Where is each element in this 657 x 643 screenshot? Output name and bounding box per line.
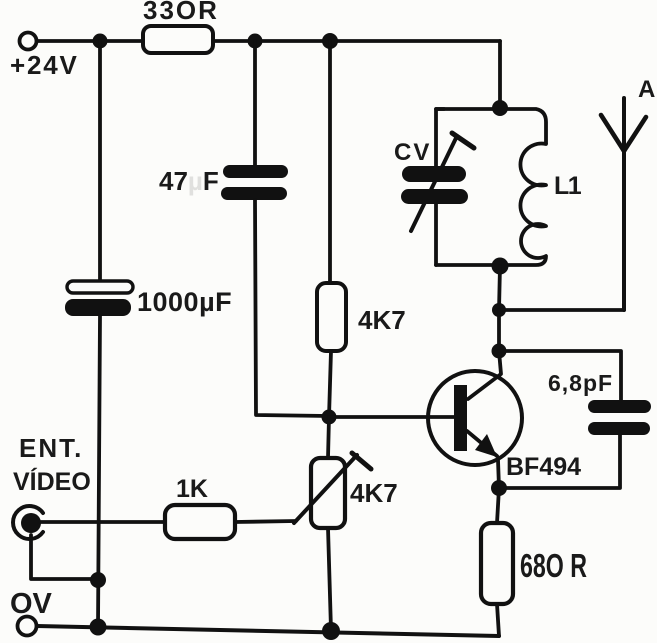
node base junction xyxy=(322,410,337,425)
wire base junction down to potentiometer xyxy=(328,417,329,458)
resistor 330R xyxy=(143,26,213,53)
wire top rail from +24V to right corner xyxy=(37,39,500,43)
wire 680R bottom to rail xyxy=(497,604,499,636)
wire video ground xyxy=(31,535,98,579)
svg-text:47µF: 47µF xyxy=(159,166,219,196)
wire 6.8pF top xyxy=(499,351,621,400)
capacitor C3 6.8pF plates xyxy=(588,400,651,435)
wire 47uF bottom down and right to base node xyxy=(255,200,329,416)
node bottom rail x=331 xyxy=(322,622,340,640)
svg-text:33OR: 33OR xyxy=(143,0,219,25)
capacitor CV variable plates xyxy=(401,166,468,204)
wire emitter node to 680R xyxy=(497,488,499,523)
inductor L1 xyxy=(436,143,546,265)
wire emitter down to emitter node xyxy=(498,460,499,488)
node tank top junction xyxy=(492,100,508,116)
wire CV arrow tip bar xyxy=(452,133,474,148)
wire collector node down into transistor xyxy=(468,351,501,399)
resistor R3 680R xyxy=(481,523,513,604)
svg-text:6,8pF: 6,8pF xyxy=(548,370,613,396)
svg-text:1K: 1K xyxy=(176,475,208,503)
tank circuit left branch wire xyxy=(436,109,444,265)
wire branch x=100 down to 1000uF xyxy=(98,41,102,281)
capacitor C1 47uF xyxy=(221,165,288,200)
svg-text:OV: OV xyxy=(10,588,53,620)
wire tank bottom to antenna node xyxy=(499,266,500,310)
svg-text:A: A xyxy=(638,76,655,103)
transistor base bar xyxy=(454,385,467,451)
node bottom rail x=98 xyxy=(90,619,107,636)
svg-text:1000µF: 1000µF xyxy=(137,287,232,317)
svg-text:VÍDEO: VÍDEO xyxy=(13,467,91,496)
svg-text:+24V: +24V xyxy=(10,50,79,80)
antenna A xyxy=(601,98,646,310)
wire 4K7 bottom to base junction xyxy=(329,351,331,417)
node junction top rail x=255 xyxy=(248,34,263,49)
capacitor C2 1000uF electrolytic xyxy=(65,281,133,316)
svg-text:4K7: 4K7 xyxy=(350,478,398,508)
terminal 0V xyxy=(18,617,37,636)
svg-text:ENT.: ENT. xyxy=(19,433,83,463)
node emitter junction xyxy=(491,480,507,496)
wire 1000uF bottom down to bottom rail xyxy=(98,316,100,627)
svg-text:BF494: BF494 xyxy=(506,453,581,481)
resistor R1 1K xyxy=(41,505,296,539)
wire bottom rail xyxy=(37,626,499,636)
node junction top rail x=100 xyxy=(93,34,108,49)
transistor emitter arrowhead xyxy=(475,434,497,457)
potentiometer P1 4K7 body xyxy=(311,458,345,528)
wire antenna node to collector node xyxy=(497,310,501,351)
node antenna junction xyxy=(492,303,506,317)
terminal video input xyxy=(13,506,43,539)
svg-text:68O R: 68O R xyxy=(520,547,587,584)
tank top wire xyxy=(436,109,546,143)
wire base junction to transistor base xyxy=(329,415,455,419)
wire pot bottom to rail xyxy=(328,528,331,630)
svg-text:CV: CV xyxy=(394,139,431,166)
wire right column down to tank top xyxy=(498,41,502,108)
terminal +24V xyxy=(20,33,37,50)
transistor emitter line xyxy=(467,431,497,456)
node junction top rail x=330 xyxy=(322,33,338,49)
wire branch x=255 down to 47uF xyxy=(253,41,257,165)
resistor R2 4K7 vertical xyxy=(317,283,346,351)
node video ground junction xyxy=(90,572,106,588)
node collector junction xyxy=(492,344,507,359)
node tank bottom junction xyxy=(492,258,509,275)
svg-text:4K7: 4K7 xyxy=(358,305,406,335)
wire antenna horizontal xyxy=(499,308,624,312)
wire 6.8pF bottom xyxy=(499,435,620,488)
wire CV arrow xyxy=(411,136,457,231)
svg-text:L1: L1 xyxy=(554,172,582,200)
transistor Q1 BF494 circle xyxy=(428,371,522,465)
wire branch x=330 down to 4K7 xyxy=(328,41,332,283)
potentiometer wiper tip bar xyxy=(352,453,371,469)
potentiometer wiper arrow xyxy=(294,455,357,523)
